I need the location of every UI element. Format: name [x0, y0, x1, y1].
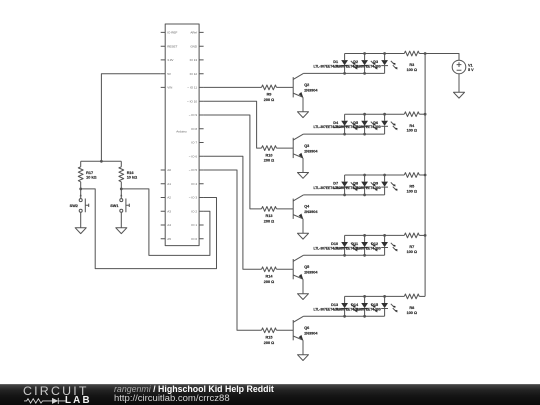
node anode bus dots row 4 — [363, 234, 366, 237]
wire 5V pin to pull-up resistors — [101, 74, 160, 162]
LED D13 LTL-307EET4-300 — [313, 296, 357, 316]
svg-text:LTL-307EET4-300: LTL-307EET4-300 — [353, 64, 380, 68]
ground under SW2 — [75, 228, 86, 234]
resistor R8 100 &#937; — [404, 294, 419, 315]
LED D6 LTL-307EET4-300 — [353, 114, 397, 134]
Arduino left pin stubs — [161, 32, 166, 238]
wire LED anode bus row 5 — [345, 295, 405, 297]
node cathode bus dots row 1 — [343, 72, 346, 75]
svg-text:LTL-307EET4-300: LTL-307EET4-300 — [353, 246, 380, 250]
LED D5 LTL-307EET4-300 — [333, 114, 377, 134]
wire R15 to Q6 base — [277, 329, 294, 331]
svg-text:LTL-307EET4-300: LTL-307EET4-300 — [353, 186, 380, 190]
svg-text:IO 2: IO 2 — [191, 209, 197, 213]
LED D10 LTL-307EET4-300 — [313, 235, 357, 255]
wire LED cathode bus row 5 — [303, 315, 384, 317]
svg-text:IO 4: IO 4 — [191, 182, 197, 186]
resistor R15 200 &#937; — [262, 328, 277, 345]
transistor Q3 2N3904 — [293, 134, 318, 158]
node cathode bus dots row 2 — [343, 133, 346, 136]
resistor R4 100 &#937; — [404, 112, 419, 133]
wire R8 to supply rail — [419, 295, 425, 297]
node cathode bus dots row 3 — [343, 194, 346, 197]
LED D2 LTL-307EET4-300 — [333, 54, 377, 74]
LED D12 LTL-307EET4-300 — [353, 235, 397, 255]
ground under Q4 — [298, 233, 309, 239]
wire LED cathode bus row 3 — [303, 194, 384, 196]
node cathode bus dots row 5 — [343, 315, 346, 318]
svg-text:RESET: RESET — [167, 44, 177, 48]
switch SW1 pushbutton — [110, 189, 129, 212]
svg-text:IO 1: IO 1 — [191, 223, 197, 227]
svg-text:200 Ω: 200 Ω — [264, 220, 274, 224]
svg-text:100 Ω: 100 Ω — [407, 189, 417, 193]
resistor R13 200 &#937; — [262, 207, 277, 224]
Arduino right pin stubs — [199, 32, 204, 238]
svg-text:Q6: Q6 — [304, 326, 309, 330]
wire SW1 node to Arduino IO2 (loop under board) — [121, 189, 210, 256]
footer title text — [114, 384, 274, 394]
svg-text:5 V: 5 V — [468, 68, 474, 72]
transistor Q5 2N3904 — [293, 255, 318, 279]
wire R10 to Q3 base — [277, 147, 294, 149]
svg-text:A0: A0 — [167, 168, 171, 172]
resistor R7 100 &#937; — [404, 233, 419, 254]
wire V1 to ground — [458, 74, 460, 93]
LED D15 LTL-307EET4-300 — [353, 296, 397, 316]
svg-text:200 Ω: 200 Ω — [264, 98, 274, 102]
LED D4 LTL-307EET4-300 — [313, 114, 357, 134]
svg-text:IO 0: IO 0 — [191, 237, 197, 241]
wire Arduino ~IO 10 to base resistor row 2 — [204, 101, 262, 148]
svg-text:GND: GND — [190, 44, 198, 48]
svg-text:~ IO 11: ~ IO 11 — [187, 86, 197, 90]
wire Q3 emitter to ground — [302, 158, 304, 173]
node SW2 junction dot — [79, 188, 82, 191]
svg-text:A1: A1 — [167, 182, 171, 186]
svg-text:100 Ω: 100 Ω — [407, 250, 417, 254]
wire LED cathode bus row 1 — [303, 72, 384, 74]
svg-text:IO 13: IO 13 — [190, 58, 198, 62]
wire Arduino ~IO11 to R9 — [204, 86, 262, 88]
wire Q5 emitter to ground — [302, 279, 304, 294]
svg-text:200 Ω: 200 Ω — [264, 280, 274, 284]
Arduino right pin labels — [187, 31, 198, 241]
wire R5 to supply rail — [419, 174, 425, 176]
svg-text:Q5: Q5 — [304, 265, 309, 269]
node supply rail junction dots — [424, 52, 427, 55]
svg-text:2N3904: 2N3904 — [304, 149, 318, 153]
resistor R5 100 &#937; — [404, 173, 419, 194]
svg-text:SW2: SW2 — [70, 204, 78, 208]
svg-text:R7: R7 — [409, 245, 414, 249]
wire R13 to Q4 base — [277, 208, 294, 210]
resistor R17 10 k&#937; — [78, 161, 96, 189]
node 5V junction dot — [100, 160, 103, 163]
LED D1 LTL-307EET4-300 — [313, 54, 357, 74]
LED D8 LTL-307EET4-300 — [333, 175, 377, 195]
LED D11 LTL-307EET4-300 — [333, 235, 377, 255]
wire Q6 emitter to ground — [302, 340, 304, 355]
wire R7 to supply rail — [419, 234, 425, 236]
svg-text:Arduino: Arduino — [176, 130, 187, 134]
wire LED anode bus row 1 — [345, 53, 405, 55]
svg-text:~ IO 5: ~ IO 5 — [189, 168, 198, 172]
svg-text:Q2: Q2 — [304, 83, 309, 87]
wire SW2 node to Arduino ~IO3 (loop under board) — [81, 189, 217, 269]
svg-text:VIN: VIN — [167, 86, 172, 90]
svg-text:R15: R15 — [266, 336, 273, 340]
ground under Q3 — [298, 173, 309, 179]
wire rail to V1 — [425, 54, 459, 61]
svg-text:R16: R16 — [127, 171, 134, 175]
ground under V1 — [454, 92, 465, 98]
svg-text:A5: A5 — [167, 237, 171, 241]
node cathode bus dots row 4 — [343, 254, 346, 257]
resistor R3 100 &#937; — [404, 51, 419, 72]
transistor Q6 2N3904 — [293, 316, 318, 340]
svg-text:R4: R4 — [409, 124, 415, 128]
svg-text:200 Ω: 200 Ω — [264, 341, 274, 345]
svg-text:~ IO 10: ~ IO 10 — [187, 99, 197, 103]
transistor Q4 2N3904 — [293, 195, 318, 219]
wire Arduino ~IO 6 to base resistor row 4 — [204, 156, 262, 269]
wire SW2 to ground — [80, 212, 82, 228]
LED D7 LTL-307EET4-300 — [313, 175, 357, 195]
Arduino left pin labels — [167, 31, 177, 241]
svg-text:R3: R3 — [409, 63, 414, 67]
resistor R16 10 k&#937; — [119, 161, 137, 189]
LED D9 LTL-307EET4-300 — [353, 175, 397, 195]
svg-text:LTL-307EET4-300: LTL-307EET4-300 — [353, 125, 380, 129]
svg-text:R14: R14 — [266, 275, 274, 279]
svg-text:~ IO 9: ~ IO 9 — [189, 113, 198, 117]
resistor R10 200 &#937; — [262, 146, 277, 163]
wire Arduino ~IO 5 to base resistor row 5 — [204, 170, 262, 330]
wire R4 to supply rail — [419, 113, 425, 115]
svg-text:2N3904: 2N3904 — [304, 271, 318, 275]
svg-text:Q3: Q3 — [304, 144, 309, 148]
switch SW2 pushbutton — [70, 189, 89, 212]
ground under SW1 — [116, 228, 127, 234]
svg-text:10 kΩ: 10 kΩ — [127, 176, 137, 180]
node anode bus dots row 3 — [363, 174, 366, 177]
svg-text:IO 7: IO 7 — [191, 141, 197, 145]
svg-text:A3: A3 — [167, 209, 171, 213]
svg-text:ARef: ARef — [190, 31, 197, 35]
ground under Q6 — [298, 355, 309, 361]
node anode bus dots row 1 — [363, 52, 366, 55]
svg-text:~ IO 3: ~ IO 3 — [189, 196, 198, 200]
svg-text:R8: R8 — [409, 306, 414, 310]
ground under Q5 — [298, 294, 309, 300]
transistor Q2 2N3904 — [293, 73, 318, 97]
wire LED anode bus row 3 — [345, 174, 405, 176]
svg-text:V1: V1 — [468, 63, 473, 67]
wire R9 to Q2 base — [277, 86, 294, 88]
svg-text:IO REF: IO REF — [167, 31, 177, 35]
resistor R9 200 &#937; — [262, 85, 277, 102]
svg-text:R13: R13 — [266, 214, 273, 218]
wire Q2 emitter to ground — [302, 97, 304, 112]
wire between R17 and R16 tops — [81, 160, 122, 162]
wire Arduino ~IO 9 to base resistor row 3 — [204, 115, 262, 209]
wire LED cathode bus row 4 — [303, 254, 384, 256]
svg-text:IO 8: IO 8 — [191, 127, 197, 131]
node anode bus dots row 5 — [363, 295, 366, 298]
CircuitLab logo — [23, 384, 89, 398]
node anode bus dots row 2 — [363, 113, 366, 116]
wire SW1 to ground — [120, 212, 122, 228]
svg-text:R5: R5 — [409, 185, 414, 189]
svg-text:~ IO 6: ~ IO 6 — [189, 154, 198, 158]
svg-text:10 kΩ: 10 kΩ — [86, 176, 96, 180]
Arduino U1 box — [165, 24, 199, 246]
svg-text:SW1: SW1 — [110, 204, 118, 208]
wire LED anode bus row 4 — [345, 234, 405, 236]
svg-text:2N3904: 2N3904 — [304, 210, 318, 214]
svg-text:2N3904: 2N3904 — [304, 89, 318, 93]
svg-text:2N3904: 2N3904 — [304, 332, 318, 336]
svg-text:5V: 5V — [167, 72, 172, 76]
wire R14 to Q5 base — [277, 268, 294, 270]
svg-text:100 Ω: 100 Ω — [407, 311, 417, 315]
svg-text:R17: R17 — [86, 171, 93, 175]
wire R3 to supply rail — [419, 53, 425, 55]
LED D14 LTL-307EET4-300 — [333, 296, 377, 316]
ground under Q2 — [298, 112, 309, 118]
svg-text:A2: A2 — [167, 196, 171, 200]
wire LED cathode bus row 2 — [303, 133, 384, 135]
resistor R14 200 &#937; — [262, 267, 277, 284]
svg-text:R10: R10 — [266, 153, 273, 157]
svg-text:100 Ω: 100 Ω — [407, 68, 417, 72]
svg-text:LTL-307EET4-300: LTL-307EET4-300 — [353, 307, 380, 311]
svg-text:A4: A4 — [167, 223, 171, 227]
svg-text:R9: R9 — [267, 93, 272, 97]
svg-text:IO 12: IO 12 — [190, 72, 198, 76]
wire LED anode bus row 2 — [345, 113, 405, 115]
LED D3 LTL-307EET4-300 — [353, 54, 397, 74]
svg-text:100 Ω: 100 Ω — [407, 129, 417, 133]
wire supply rail — [424, 54, 426, 297]
wire Q4 emitter to ground — [302, 219, 304, 234]
voltage source V1 5 V — [452, 60, 474, 74]
svg-text:200 Ω: 200 Ω — [264, 159, 274, 163]
svg-text:Q4: Q4 — [304, 205, 310, 209]
Arduino name label — [176, 130, 187, 134]
svg-text:3.3V: 3.3V — [167, 58, 174, 62]
node SW1 junction dot — [120, 188, 123, 191]
